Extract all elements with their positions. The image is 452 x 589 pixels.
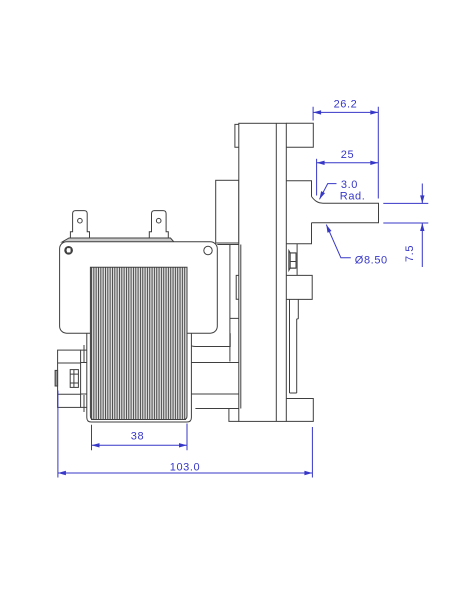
left bracket gray tab: [55, 370, 58, 386]
hex bolt body: [289, 251, 296, 271]
bottom-right flange: [286, 399, 313, 422]
dim 7.5 extension lines: [383, 203, 428, 223]
svg-text:3.0: 3.0: [341, 179, 358, 191]
svg-text:38: 38: [131, 431, 144, 443]
strap arm under motor (left and right horizontals): [81, 363, 239, 395]
motor front plate step: [217, 245, 239, 362]
svg-text:25: 25: [341, 149, 354, 161]
arrowheads 25: [317, 161, 325, 165]
dim 26.2 line: [313, 111, 378, 113]
arrowhead 3.0 Rad: [320, 191, 326, 199]
terminal T1 blade: [70, 211, 89, 238]
fins bottom line: [91, 419, 186, 421]
svg-text:26.2: 26.2: [334, 99, 358, 111]
arrowheads 7.5: [420, 195, 424, 203]
leader Ø8.50: [326, 225, 351, 258]
dim 26.2 extension lines: [313, 107, 378, 199]
dim 25 extension line: [316, 159, 318, 196]
band under cover right side: [186, 333, 230, 346]
gearbox top-left tab: [235, 124, 239, 147]
arrowheads 103.0: [58, 471, 66, 475]
left bracket divisions: [58, 363, 81, 394]
dim 103.0 extension lines: [58, 391, 313, 478]
svg-text:Rad.: Rad.: [340, 191, 366, 203]
gearbox left lip line: [240, 245, 242, 409]
svg-text:103.0: 103.0: [170, 461, 201, 473]
dim 25 line: [317, 162, 379, 164]
gearbox left bump: [236, 275, 239, 299]
block between motor and gearbox (upper spacer): [216, 180, 239, 243]
terminal T2 hole: [156, 218, 161, 223]
svg-text:Ø8.50: Ø8.50: [355, 254, 388, 266]
motor cover: [60, 242, 218, 334]
dim 103.0 line: [58, 472, 313, 474]
gearbox main plate: [239, 123, 286, 421]
gearbox top-right flange: [286, 123, 313, 147]
left screw (thick ring): [65, 247, 71, 253]
dim 38 extension lines: [92, 424, 188, 451]
arrowheads 38: [92, 443, 100, 447]
leader 3.0 Rad: [320, 184, 337, 200]
gearbox cover seam: [275, 123, 277, 421]
left bracket body: [58, 350, 81, 407]
shaft boss: [286, 181, 311, 244]
bracket bolt: [70, 370, 78, 388]
gearbox foot: [195, 409, 238, 422]
arrowheads 26.2: [313, 110, 321, 114]
dim 38 line: [92, 444, 188, 446]
right screw: [204, 246, 212, 254]
hex bolt on gearbox face: [296, 244, 298, 276]
dim 7.5 arrow lines: [421, 184, 423, 268]
terminal T2 blade: [149, 211, 168, 238]
right block below bolt: [286, 275, 312, 299]
right stepped column: [290, 299, 299, 393]
svg-text:7.5: 7.5: [404, 245, 416, 262]
fins block: [90, 267, 187, 419]
terminal strip plate: [62, 238, 174, 242]
blue dimensions: [58, 107, 428, 478]
bracket-to-motor connector block: [81, 345, 87, 412]
terminal T1 hole: [78, 218, 83, 223]
shaft with fillet: [312, 197, 379, 223]
arrowhead Ø8.50: [326, 225, 331, 233]
outer end plate behind fins (drawn before cover so hidden above): [87, 300, 192, 422]
